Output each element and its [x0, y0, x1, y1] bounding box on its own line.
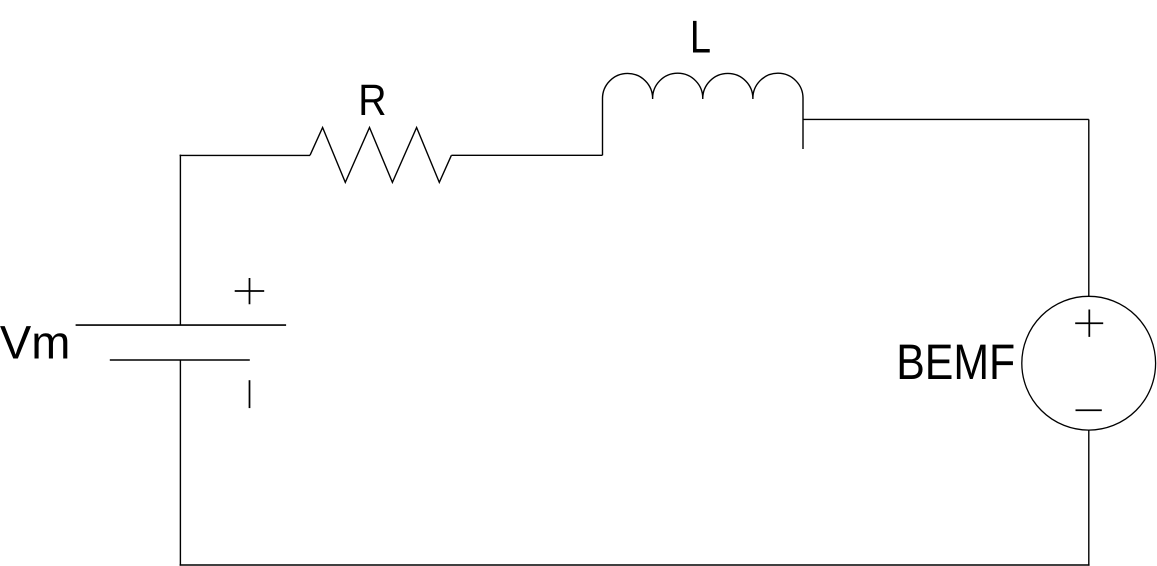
- svg-text:BEMF: BEMF: [896, 334, 1015, 390]
- wire bottom horizontal: [180, 564, 1090, 566]
- wire right vertical upper: [1088, 119, 1090, 296]
- label R: [358, 76, 386, 125]
- BEMF minus sign: [1076, 409, 1102, 411]
- battery Vm top plate: [76, 324, 287, 326]
- label Vm: [0, 316, 70, 369]
- wire top-right horizontal: [803, 118, 1089, 120]
- svg-text:L: L: [690, 11, 711, 63]
- battery plus sign: [235, 278, 265, 304]
- inductor L: [602, 73, 803, 155]
- battery minus sign (vertical bar): [249, 380, 251, 408]
- label L: [690, 11, 711, 63]
- BEMF plus sign: [1075, 310, 1103, 337]
- wire left vertical top segment: [179, 155, 181, 326]
- voltage source BEMF circle: [1022, 296, 1156, 430]
- svg-text:Vm: Vm: [0, 316, 70, 369]
- resistor R: [310, 128, 451, 183]
- wire resistor to inductor: [451, 154, 602, 156]
- battery Vm bottom plate: [110, 359, 250, 361]
- label BEMF: [896, 334, 1015, 390]
- svg-text:R: R: [358, 76, 386, 125]
- wire right vertical lower: [1088, 430, 1090, 565]
- wire top-left horizontal: [180, 154, 310, 156]
- wire left vertical lower segment: [179, 360, 181, 566]
